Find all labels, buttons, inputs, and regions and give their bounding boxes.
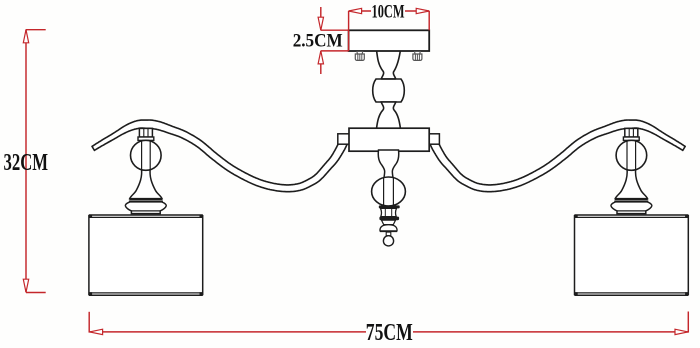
cushion base line — [380, 230, 397, 232]
left arm — [92, 120, 348, 192]
hub body — [349, 128, 429, 151]
finial ball — [383, 236, 393, 246]
upper stem hourglass — [376, 49, 400, 79]
left lamp holder — [125, 128, 166, 213]
cushion disc — [380, 225, 397, 231]
2.5CM down arrow — [318, 17, 323, 30]
75CM right arrow — [675, 329, 688, 334]
32CM down arrow — [23, 279, 28, 292]
taper neck — [382, 220, 396, 224]
vase below hub — [378, 150, 399, 180]
lower stem hourglass — [376, 102, 400, 130]
75CM tick left — [88, 312, 90, 333]
32CM extension bottom — [26, 292, 46, 294]
32CM extension top — [26, 29, 46, 31]
2.5CM line above — [320, 7, 322, 30]
32CM up arrow — [23, 30, 28, 43]
spool meridians — [384, 208, 386, 216]
collar ring 2 — [379, 217, 399, 221]
10CM dimension line — [349, 10, 371, 12]
75CM dimension line — [90, 331, 366, 333]
32CM dimension line — [25, 30, 27, 292]
2.5CM extension bottom — [321, 50, 349, 52]
bulb top chord — [381, 78, 396, 80]
left screw — [355, 52, 364, 61]
10CM right arrow — [416, 8, 429, 13]
10CM extension line left — [348, 11, 350, 51]
right arm — [430, 120, 686, 192]
right lamp holder — [611, 128, 652, 213]
stem bulb — [373, 79, 405, 102]
svg-text:75CM: 75CM — [366, 320, 413, 343]
center sphere — [372, 177, 406, 206]
svg-text:10CM: 10CM — [372, 2, 405, 23]
svg-text:2.5CM: 2.5CM — [293, 30, 343, 51]
75CM tick right — [687, 312, 689, 333]
spool — [381, 208, 397, 216]
svg-text:32CM: 32CM — [4, 150, 49, 176]
right screw — [413, 52, 422, 61]
ceiling plate — [349, 30, 430, 51]
2.5CM line below — [320, 51, 322, 74]
10CM left arrow — [349, 8, 362, 13]
2.5CM up arrow — [318, 51, 323, 64]
bulb bottom chord — [381, 101, 396, 103]
finial neck — [386, 232, 391, 236]
left lamp shade — [89, 215, 203, 296]
10CM extension line right — [428, 11, 430, 30]
right hub tab — [427, 134, 439, 144]
sphere meridian left — [383, 178, 385, 205]
left hub tab — [338, 134, 350, 144]
sphere meridian right — [392, 178, 394, 205]
75CM left arrow — [90, 329, 103, 334]
right lamp shade — [574, 215, 688, 296]
2.5CM extension top — [321, 29, 349, 31]
collar ring 1 — [379, 205, 400, 208]
